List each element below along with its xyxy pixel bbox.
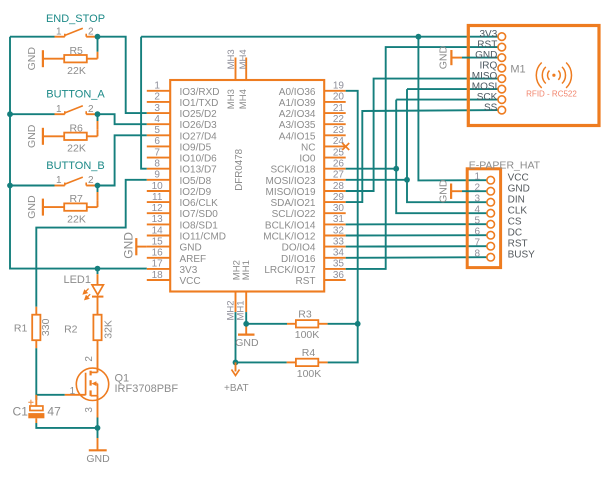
- pin 28 MISO/IO19: [324, 190, 346, 192]
- node source GND: [95, 425, 101, 431]
- svg-text:MH1: MH1: [241, 260, 252, 280]
- pin 13 IO8/SD1: [147, 223, 170, 225]
- svg-text:R2: R2: [64, 324, 78, 336]
- svg-text:R1: R1: [14, 323, 28, 335]
- svg-text:3V3: 3V3: [480, 29, 498, 40]
- svg-text:DI/IO16: DI/IO16: [281, 254, 316, 265]
- EPAPER pin 3 DIN: [487, 198, 495, 206]
- pin 31 BCLK/IO14: [324, 223, 346, 225]
- node +BAT: [233, 360, 239, 366]
- resistor R7 22K: [43, 206, 64, 208]
- svg-text:10: 10: [152, 181, 164, 192]
- svg-text:A4/IO15: A4/IO15: [279, 131, 316, 142]
- svg-text:A2/IO34: A2/IO34: [279, 109, 316, 120]
- wire M1 GND: [462, 57, 498, 59]
- pin 7 IO10/D6: [147, 157, 170, 159]
- EPAPER pin 2 GND: [487, 187, 495, 195]
- svg-text:GND: GND: [26, 47, 38, 71]
- node BUTTON_A pin1 rail: [7, 111, 13, 117]
- IC U1 DFR0478 body: [170, 80, 324, 292]
- wire BUTTON_A pin1: [10, 113, 55, 115]
- wire IC pin33 to EPAPER RST: [346, 245, 487, 247]
- wire R6 to BUTTON_A pin2: [97, 117, 99, 122]
- wire END_STOP pin1: [10, 36, 55, 38]
- svg-text:A1/IO39: A1/IO39: [279, 98, 316, 109]
- svg-text:GND: GND: [437, 179, 449, 203]
- svg-text:34: 34: [333, 248, 345, 259]
- M1 pin MISO: [498, 75, 506, 83]
- svg-text:GND: GND: [235, 337, 259, 349]
- svg-text:A3/IO35: A3/IO35: [279, 120, 316, 131]
- pin MH3: [235, 58, 237, 81]
- M1 pin GND: [498, 54, 506, 62]
- svg-text:SCK/IO18: SCK/IO18: [270, 165, 315, 176]
- svg-text:MH4: MH4: [238, 49, 249, 69]
- pin 26 SCK/IO18: [324, 168, 346, 170]
- wire R5 to END_STOP pin2: [97, 39, 99, 52]
- pin 18 VCC: [147, 279, 170, 281]
- pin 34 DI/IO16: [324, 257, 346, 259]
- wire top rail to M1 3V3: [141, 36, 498, 38]
- pin 12 IO7/SD0: [147, 212, 170, 214]
- wire IC pin9 to R1: [36, 180, 147, 307]
- svg-text:3: 3: [474, 194, 480, 205]
- svg-text:21: 21: [333, 103, 345, 114]
- svg-text:6: 6: [474, 227, 480, 238]
- svg-text:100K: 100K: [295, 329, 320, 341]
- svg-text:IO9/D5: IO9/D5: [180, 142, 212, 153]
- svg-text:23: 23: [333, 125, 345, 136]
- svg-text:29: 29: [333, 192, 345, 203]
- svg-text:DIN: DIN: [508, 195, 525, 206]
- pin 11 IO6/CLK: [147, 201, 170, 203]
- node pin27 MOSI: [404, 177, 410, 183]
- svg-text:GND: GND: [438, 46, 450, 70]
- svg-text:IO10/D6: IO10/D6: [180, 154, 218, 165]
- svg-text:MOSI: MOSI: [472, 82, 498, 93]
- M1 pin RST: [498, 43, 506, 51]
- svg-text:VCC: VCC: [508, 173, 529, 184]
- svg-text:33: 33: [333, 236, 345, 247]
- svg-text:32K: 32K: [103, 320, 115, 339]
- svg-text:E-PAPER_HAT: E-PAPER_HAT: [469, 159, 541, 171]
- svg-text:IO27/D4: IO27/D4: [180, 131, 218, 142]
- svg-text:14: 14: [152, 225, 164, 236]
- svg-text:IO25/D2: IO25/D2: [180, 109, 218, 120]
- module M1 RFID-RC522 body: [468, 26, 599, 126]
- svg-text:GND: GND: [86, 453, 110, 465]
- svg-text:GND: GND: [122, 232, 136, 259]
- svg-text:2: 2: [154, 92, 160, 103]
- svg-text:SDA/IO21: SDA/IO21: [270, 198, 315, 209]
- EPAPER pin 5 CS: [487, 220, 495, 228]
- wire BUTTON_B pin1: [10, 185, 55, 187]
- M1 antenna icon: [536, 63, 571, 88]
- svg-text:8: 8: [474, 249, 480, 260]
- node divider A0: [355, 321, 361, 327]
- svg-text:VCC: VCC: [180, 276, 201, 287]
- svg-text:MH1: MH1: [236, 300, 247, 320]
- pin 32 MCLK/IO12: [324, 235, 346, 237]
- wire IC pin8 to top rail: [141, 37, 147, 169]
- svg-text:GND: GND: [508, 184, 530, 195]
- svg-text:M1: M1: [510, 64, 525, 76]
- svg-text:2: 2: [474, 183, 480, 194]
- svg-text:IO5/D8: IO5/D8: [180, 176, 212, 187]
- pin 24 NC mark: [342, 143, 349, 150]
- svg-text:MCLK/IO12: MCLK/IO12: [263, 232, 316, 243]
- svg-text:CS: CS: [508, 217, 522, 228]
- ground symbol at MH1: [245, 324, 247, 335]
- svg-text:IO1/TXD: IO1/TXD: [180, 98, 219, 109]
- svg-text:RST: RST: [477, 40, 497, 51]
- pin 27 MOSI/IO23: [324, 179, 346, 181]
- svg-text:BUTTON_B: BUTTON_B: [46, 160, 104, 172]
- node BUTTON_B pin1 rail: [7, 183, 13, 189]
- svg-text:4: 4: [154, 114, 160, 125]
- wire M1 SCK: [396, 99, 498, 101]
- svg-text:MH4: MH4: [238, 89, 249, 109]
- svg-text:BCLK/IO14: BCLK/IO14: [265, 220, 316, 231]
- svg-text:MISO/IO19: MISO/IO19: [265, 187, 315, 198]
- node top rail / EPAPER VCC: [416, 34, 422, 40]
- svg-text:7: 7: [474, 238, 480, 249]
- node 3V3 LED1: [95, 266, 101, 272]
- svg-text:22K: 22K: [67, 65, 86, 77]
- svg-text:GND: GND: [475, 50, 497, 61]
- wire M1 MOSI: [407, 88, 498, 90]
- resistor R3 100K: [246, 323, 287, 325]
- EPAPER pin 8 BUSY: [487, 253, 495, 261]
- svg-text:1: 1: [56, 104, 62, 115]
- M1 pin IRQ: [498, 64, 506, 72]
- pin 22 A3/IO35: [324, 123, 346, 125]
- svg-text:5: 5: [154, 125, 160, 136]
- pin 30 SCL/IO22: [324, 212, 346, 214]
- pin MH2: [235, 292, 237, 313]
- node BUTTON_B pin2: [95, 183, 101, 189]
- ground symbol at IC pin15 GND: [135, 238, 137, 255]
- pin 14 IO11/CMD: [147, 235, 170, 237]
- M1 pin SCK: [498, 96, 506, 104]
- svg-text:8: 8: [154, 159, 160, 170]
- svg-text:MISO: MISO: [472, 71, 498, 82]
- pin 8 IO13/D7: [147, 168, 170, 170]
- pin MH4: [245, 58, 247, 81]
- switch BUTTON_A blade: [65, 106, 83, 113]
- pin 1 IO3/RXD: [147, 90, 170, 92]
- pin 3 IO25/D2: [147, 112, 170, 114]
- svg-text:17: 17: [152, 259, 164, 270]
- pin 19 A0/IO36: [324, 90, 346, 92]
- svg-text:DC: DC: [508, 228, 522, 239]
- svg-text:GND: GND: [26, 124, 38, 148]
- +BAT symbol: [235, 362, 237, 371]
- pin 2 IO1/TXD: [147, 101, 170, 103]
- wire LED1 to R2: [97, 297, 99, 315]
- svg-text:100K: 100K: [297, 368, 322, 380]
- pin 5 IO27/D4: [147, 134, 170, 136]
- svg-text:3: 3: [154, 103, 160, 114]
- svg-text:IO3/RXD: IO3/RXD: [180, 87, 220, 98]
- svg-text:+BAT: +BAT: [224, 383, 249, 394]
- svg-text:27: 27: [333, 170, 345, 181]
- wire R1 to gate node: [35, 348, 37, 400]
- svg-text:LRCK/IO17: LRCK/IO17: [264, 265, 316, 276]
- svg-text:24: 24: [333, 136, 345, 147]
- svg-text:9: 9: [154, 170, 160, 181]
- svg-text:MH3: MH3: [226, 89, 237, 109]
- svg-text:IO7/SD0: IO7/SD0: [180, 209, 219, 220]
- svg-text:15: 15: [152, 236, 164, 247]
- ground symbol at M1 GND: [450, 50, 452, 65]
- svg-text:C1: C1: [13, 405, 29, 419]
- LED1 light arrows: [83, 289, 90, 300]
- svg-text:31: 31: [333, 214, 345, 225]
- wire MH2 to +BAT node: [235, 312, 237, 362]
- wire IC pin28 to M1 MISO: [346, 79, 498, 191]
- pin 24 NC: [324, 145, 346, 147]
- capacitor C1 47: [35, 395, 37, 406]
- pin 9 IO5/D8: [147, 179, 170, 181]
- wire MH1 to GND node: [245, 312, 247, 324]
- pin 29 SDA/IO21: [324, 201, 346, 203]
- svg-text:32: 32: [333, 225, 345, 236]
- wire gate node to Q1 gate: [36, 394, 65, 396]
- svg-text:20: 20: [333, 92, 345, 103]
- switch END_STOP blade: [65, 28, 83, 35]
- pin 35 LRCK/IO17: [324, 268, 346, 270]
- pin 33 DO/IO4: [324, 246, 346, 248]
- svg-text:MH3: MH3: [226, 49, 237, 69]
- EPAPER pin 4 CLK: [487, 209, 495, 217]
- svg-text:IRQ: IRQ: [480, 61, 498, 72]
- svg-text:END_STOP: END_STOP: [46, 13, 105, 25]
- svg-text:30: 30: [333, 203, 345, 214]
- resistor R5 22K: [43, 58, 64, 60]
- svg-text:12: 12: [152, 203, 164, 214]
- svg-text:IO13/D7: IO13/D7: [180, 165, 218, 176]
- svg-text:RST: RST: [508, 239, 528, 250]
- svg-text:35: 35: [333, 259, 345, 270]
- wire MOSI column M1.MOSI to EPAPER.DIN: [407, 89, 487, 202]
- transistor Q1 IRF3708PBF: [76, 368, 108, 400]
- svg-text:MOSI/IO23: MOSI/IO23: [265, 176, 315, 187]
- switch BUTTON_B blade: [65, 177, 83, 184]
- svg-text:22: 22: [333, 114, 345, 125]
- svg-text:3: 3: [84, 407, 95, 413]
- svg-text:1: 1: [56, 26, 62, 37]
- svg-text:5: 5: [474, 216, 480, 227]
- svg-text:18: 18: [152, 270, 164, 281]
- wire END_STOP pin2 to IC pin3: [98, 37, 147, 113]
- svg-text:2: 2: [88, 104, 94, 115]
- M1 pin SS: [498, 106, 506, 114]
- svg-text:2: 2: [88, 26, 94, 37]
- connector E-PAPER_HAT body: [467, 169, 500, 268]
- pin 6 IO9/D5: [147, 145, 170, 147]
- svg-text:22K: 22K: [67, 214, 86, 226]
- M1 pin MOSI: [498, 85, 506, 93]
- svg-text:RST: RST: [296, 276, 316, 287]
- wire C1 to GND rail: [35, 418, 37, 423]
- svg-text:47: 47: [47, 405, 61, 419]
- pin 25 IO0: [324, 157, 346, 159]
- svg-text:BUSY: BUSY: [508, 250, 536, 261]
- svg-text:1: 1: [56, 175, 62, 186]
- pin 15 GND: [147, 246, 170, 248]
- EPAPER pin 1 VCC: [487, 176, 495, 184]
- wire IC pin19 to battery divider node: [346, 91, 358, 324]
- pin 36 RST: [324, 279, 346, 281]
- svg-text:3V3: 3V3: [180, 265, 198, 276]
- svg-text:4: 4: [474, 205, 480, 216]
- svg-text:SCL/IO22: SCL/IO22: [272, 209, 316, 220]
- ground symbol bottom: [97, 428, 99, 438]
- wire IC pin34 to EPAPER BUSY: [346, 256, 487, 259]
- resistor R2 32K: [93, 315, 101, 341]
- wire IC pin31 to EPAPER CS: [346, 223, 487, 225]
- svg-text:IRF3708PBF: IRF3708PBF: [115, 383, 179, 395]
- svg-text:IO26/D3: IO26/D3: [180, 120, 218, 131]
- pin 20 A1/IO39: [324, 101, 346, 103]
- svg-text:19: 19: [333, 81, 345, 92]
- svg-text:1: 1: [70, 386, 76, 397]
- svg-text:GND: GND: [180, 243, 202, 254]
- pin MH1: [245, 292, 247, 313]
- svg-text:R4: R4: [302, 347, 316, 359]
- node END_STOP pin2: [95, 34, 101, 40]
- svg-text:BUTTON_A: BUTTON_A: [46, 89, 105, 101]
- svg-text:A0/IO36: A0/IO36: [279, 87, 316, 98]
- pin 17 3V3: [147, 268, 170, 270]
- svg-text:1: 1: [154, 81, 160, 92]
- svg-text:IO2/D9: IO2/D9: [180, 187, 212, 198]
- svg-text:NC: NC: [301, 142, 315, 153]
- wire SCK column M1.SCK to EPAPER.CLK: [396, 100, 487, 214]
- node pin26 SCK: [393, 166, 399, 172]
- svg-text:2: 2: [84, 356, 95, 362]
- pin 10 IO2/D9: [147, 190, 170, 192]
- svg-text:AREF: AREF: [180, 254, 207, 265]
- resistor R6 22K: [43, 135, 64, 137]
- svg-text:DO/IO4: DO/IO4: [282, 243, 316, 254]
- svg-text:IO8/SD1: IO8/SD1: [180, 220, 219, 231]
- svg-text:SCK: SCK: [477, 92, 498, 103]
- svg-text:6: 6: [154, 136, 160, 147]
- wire Q1 source to GND: [97, 418, 99, 428]
- wire IC pin26 to SCK column: [346, 168, 397, 170]
- svg-text:13: 13: [152, 214, 164, 225]
- M1 pin 3V3: [498, 33, 506, 41]
- wire BUTTON_B pin2 to IC pin5: [98, 135, 147, 185]
- resistor R4 100K: [328, 324, 358, 363]
- wire 3V3 column to EPAPER VCC: [418, 37, 487, 181]
- wire IC pin29 to M1 SS: [346, 110, 498, 202]
- svg-text:R7: R7: [69, 193, 83, 205]
- svg-text:RFID - RC522: RFID - RC522: [526, 90, 577, 99]
- svg-text:16: 16: [152, 248, 164, 259]
- ground symbol at EPAPER GND: [450, 184, 452, 199]
- wire EPAPER GND: [462, 190, 487, 192]
- svg-text:SS: SS: [484, 103, 498, 114]
- svg-text:2: 2: [88, 175, 94, 186]
- svg-text:R6: R6: [69, 122, 83, 134]
- svg-text:R5: R5: [69, 45, 83, 57]
- pin 21 A2/IO34: [324, 112, 346, 114]
- svg-text:36: 36: [333, 270, 345, 281]
- svg-text:7: 7: [154, 147, 160, 158]
- wire IC pin27 to MOSI column: [346, 179, 407, 181]
- svg-text:11: 11: [152, 192, 163, 203]
- pin 4 IO26/D3: [147, 123, 170, 125]
- svg-text:LED1: LED1: [63, 274, 91, 286]
- svg-text:CLK: CLK: [508, 206, 528, 217]
- svg-text:1: 1: [474, 172, 480, 183]
- wire R7 to BUTTON_B pin2: [97, 188, 99, 192]
- wire 3V3 left rail: [10, 37, 147, 269]
- svg-text:330: 330: [40, 318, 52, 336]
- svg-text:R3: R3: [298, 308, 312, 320]
- EPAPER pin 7 RST: [487, 242, 495, 250]
- wire BUTTON_A pin2 to IC pin4: [98, 114, 147, 124]
- EPAPER pin 6 DC: [487, 231, 495, 239]
- svg-text:IO6/CLK: IO6/CLK: [180, 198, 219, 209]
- svg-text:26: 26: [333, 159, 345, 170]
- pin 23 A4/IO15: [324, 134, 346, 136]
- svg-text:DFR0478: DFR0478: [234, 148, 245, 190]
- node MH1 GND: [243, 321, 249, 327]
- resistor R1 330: [35, 307, 37, 315]
- svg-text:GND: GND: [26, 195, 38, 219]
- ground symbol at R6: [42, 128, 44, 145]
- node BUTTON_A pin2: [95, 111, 101, 117]
- ground symbol at R5: [42, 50, 44, 67]
- svg-text:28: 28: [333, 181, 345, 192]
- wire IC pin32 to EPAPER DC: [346, 234, 487, 236]
- ground symbol at R7: [42, 199, 44, 216]
- svg-text:22K: 22K: [67, 143, 86, 155]
- wire IC pin35 to M1 RST: [346, 47, 498, 269]
- svg-text:IO11/CMD: IO11/CMD: [180, 232, 227, 243]
- pin 16 AREF: [147, 257, 170, 259]
- svg-text:IO0: IO0: [299, 154, 316, 165]
